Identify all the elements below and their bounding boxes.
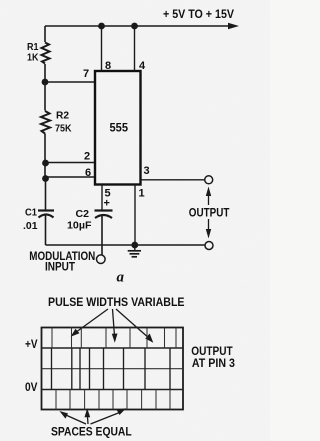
wire ground rail bbox=[46, 244, 206, 246]
wire pin 4 bbox=[134, 26, 136, 71]
svg-text:1: 1 bbox=[139, 188, 145, 200]
arrow space middle bbox=[86, 415, 89, 424]
svg-text:+ 5V TO + 15V: + 5V TO + 15V bbox=[163, 7, 234, 21]
wire pin 3 to output bbox=[141, 179, 206, 181]
svg-text:1K: 1K bbox=[27, 52, 39, 64]
svg-text:0V: 0V bbox=[25, 380, 38, 394]
svg-text:6: 6 bbox=[85, 167, 91, 179]
svg-text:AT PIN 3: AT PIN 3 bbox=[192, 356, 235, 370]
svg-text:SPACES EQUAL: SPACES EQUAL bbox=[51, 425, 132, 439]
svg-text:2: 2 bbox=[84, 150, 90, 162]
svg-text:+V: +V bbox=[25, 337, 38, 351]
ground symbol bbox=[134, 245, 136, 251]
svg-text:3: 3 bbox=[144, 165, 150, 177]
svg-text:8: 8 bbox=[105, 60, 111, 72]
junction dot pin8 bbox=[98, 23, 105, 30]
graticule horizontal 0V line bbox=[42, 389, 184, 391]
arrow pulse left bbox=[74, 309, 109, 334]
terminal circle modulation input bbox=[97, 255, 106, 264]
junction dot pin4 bbox=[131, 23, 138, 30]
wire pin 6 bbox=[46, 176, 96, 178]
wire pin 7 bbox=[45, 81, 95, 83]
junction dot ground bbox=[131, 242, 138, 249]
graticule verticals bottom band bbox=[56, 390, 170, 410]
wire pin 1 down bbox=[134, 185, 136, 246]
junction dot pin6 bbox=[42, 175, 49, 182]
wire R1 top bbox=[44, 26, 46, 42]
svg-text:.01: .01 bbox=[23, 220, 38, 232]
svg-text:7: 7 bbox=[83, 68, 89, 80]
wire R1 to R2 bbox=[44, 82, 46, 111]
waveform square wave verticals middle band (pin 3 output) bbox=[52, 348, 171, 390]
capacitor C2 bbox=[95, 209, 113, 211]
svg-text:+: + bbox=[104, 198, 110, 210]
junction dot pin2 bbox=[42, 160, 49, 167]
terminal circle output top bbox=[205, 176, 213, 184]
svg-text:a: a bbox=[117, 269, 125, 285]
arrow pulse middle bbox=[113, 309, 115, 336]
graticule frame bbox=[42, 328, 184, 410]
svg-text:C2: C2 bbox=[76, 208, 90, 220]
wire pin 8 bbox=[101, 26, 103, 71]
svg-text:INPUT: INPUT bbox=[45, 259, 76, 273]
resistor R1 bbox=[42, 43, 50, 64]
graticule horizontal +V line bbox=[42, 347, 184, 349]
wire pin 5 bbox=[101, 185, 103, 211]
graticule verticals top band bbox=[52, 328, 176, 349]
IC 555 U1 bbox=[95, 71, 141, 185]
wire R1 bottom bbox=[44, 64, 46, 82]
resistor R2 bbox=[41, 111, 50, 134]
wire C1 bottom to ground rail bbox=[45, 215, 47, 246]
svg-text:75K: 75K bbox=[55, 123, 72, 135]
svg-text:PULSE WIDTHS VARIABLE: PULSE WIDTHS VARIABLE bbox=[48, 295, 185, 309]
node V+ top supply rail wire bbox=[45, 25, 234, 27]
svg-text:R2: R2 bbox=[56, 109, 69, 121]
arrow down to output bottom bbox=[208, 219, 210, 232]
capacitor C1 bbox=[38, 209, 54, 211]
wire R2 bottom bbox=[44, 134, 46, 179]
graticule horizontal middle line bbox=[42, 368, 184, 370]
svg-text:C1: C1 bbox=[25, 207, 37, 219]
terminal circle output bottom bbox=[205, 242, 213, 250]
arrow space right bbox=[91, 412, 123, 425]
svg-text:OUTPUT: OUTPUT bbox=[189, 206, 230, 220]
arrow up to output top bbox=[208, 192, 210, 205]
wire C2 bottom through rail to modulation terminal bbox=[101, 215, 103, 256]
wire to C1 bbox=[45, 179, 47, 211]
svg-text:555: 555 bbox=[110, 123, 129, 135]
svg-text:10µF: 10µF bbox=[67, 219, 92, 231]
wire pin 2 bbox=[46, 162, 96, 164]
svg-text:4: 4 bbox=[139, 60, 146, 72]
junction dot R1/pin7 bbox=[42, 79, 49, 86]
arrow space left bbox=[63, 414, 87, 425]
arrow pulse right bbox=[116, 309, 150, 339]
arrowhead supply rail bbox=[228, 23, 239, 29]
